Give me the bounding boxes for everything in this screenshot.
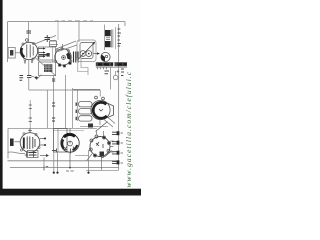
- output tube V4 envelope: [91, 100, 110, 119]
- tube V2 IF amp envelope: [55, 49, 71, 65]
- wire top drop to V1: [28, 22, 30, 42]
- V6 pin dark dots: [94, 137, 110, 157]
- gang output lead: [94, 53, 98, 55]
- vertical wire x77 to ladder: [76, 90, 78, 121]
- V6 bottom drop wire: [101, 158, 103, 171]
- transformer inner line: [57, 129, 59, 152]
- label c below: [44, 166, 48, 171]
- pilot lamp lead: [115, 71, 117, 75]
- tube V2 perimeter pin bumps: [55, 48, 72, 63]
- switch label marks: [29, 153, 37, 156]
- V7 left dark bar: [23, 138, 25, 149]
- V4 top pin circles: [95, 96, 98, 99]
- plus mark: [37, 57, 40, 60]
- detector tube V3 envelope: [101, 52, 110, 61]
- V3 dark half: [101, 55, 105, 62]
- output transformer winding 2: [105, 41, 111, 47]
- tube V1 bottom pin bars: [25, 60, 32, 64]
- bottom curved wire: [8, 152, 26, 154]
- vertical drops from V7: [54, 152, 58, 172]
- plus mark right: [117, 70, 120, 73]
- gang rotor A dot: [82, 53, 84, 55]
- V3 inner mark: [105, 55, 107, 57]
- diagonal wires to tuning cap: [56, 41, 77, 52]
- cap E2: [112, 142, 117, 144]
- tube V2 dark anode segments: [66, 52, 71, 60]
- capacitor C4 in series: [27, 76, 31, 78]
- oscillator coil box L1: [39, 47, 56, 60]
- rectifier filament tube V7 envelope: [20, 133, 40, 153]
- vertical wire x52.5: [52, 46, 54, 62]
- L1 terminal blob: [47, 53, 50, 57]
- vertical wire x110.5 below band: [110, 67, 112, 90]
- band lower rail: [96, 66, 127, 68]
- rectifier tube V5 envelope: [61, 134, 79, 152]
- vertical drop x44: [43, 158, 45, 168]
- V6 inner marks: [96, 142, 103, 148]
- band dark dashes: [98, 63, 127, 65]
- V7 right stub dots: [44, 138, 46, 140]
- antenna terminal box: [8, 48, 15, 59]
- V7 inner H bars: [27, 137, 35, 150]
- L1 winding dark bar: [39, 54, 48, 56]
- resistor R1 box: [50, 41, 57, 47]
- chassis dark band: [96, 62, 127, 66]
- wire V1 cathode drop: [28, 60, 30, 75]
- V7 bottom stubs: [25, 152, 36, 158]
- C4 diamond terminal: [34, 76, 38, 79]
- tuning gang box: [80, 43, 93, 59]
- cap E3: [112, 152, 117, 154]
- V6 lead wires: [97, 131, 114, 152]
- tube V6 envelope: [90, 137, 110, 157]
- wire from C4: [29, 77, 34, 90]
- V4 bottom diagonal leads: [104, 117, 115, 127]
- vertical wire x65: [65, 75, 67, 128]
- component at 100,153: [100, 152, 105, 157]
- junction marks on bus: [52, 149, 71, 154]
- svg-text:www.gacetilla.com/clefului.c: www.gacetilla.com/clefului.c: [124, 71, 133, 188]
- speaker lead line: [115, 27, 117, 49]
- bottom bus wire 1: [8, 160, 119, 162]
- wire top drop at x78: [78, 22, 80, 42]
- V4 inner marks: [99, 109, 103, 111]
- diagonal wire bottom-left of padder: [36, 75, 42, 81]
- cap E4: [112, 161, 117, 163]
- tube V1 left lead: [15, 52, 20, 54]
- pilot lamp: [113, 75, 118, 80]
- resistor R2 box: [79, 102, 93, 107]
- component marks on x53 wire: [52, 79, 55, 121]
- wire diagonal V1 to padder: [35, 58, 56, 77]
- cap C3 label left of frame: [20, 76, 24, 81]
- V7 perimeter pin bumps: [20, 133, 40, 151]
- tube V1 inner grid bars: [27, 45, 33, 58]
- label b2 marks right of band: [121, 69, 124, 76]
- vertical wire x53: [53, 75, 55, 128]
- gang arrow: [78, 43, 95, 60]
- vertical wire x72: [72, 88, 74, 128]
- wire y155 to x88: [75, 150, 89, 172]
- wire top drop x58: [57, 22, 59, 40]
- filter cap stack: cap E1: [112, 132, 117, 134]
- frame top border: [8, 21, 126, 23]
- capacitor C6 at V7 left: [15, 141, 21, 143]
- tube V1 cathode dark blob: [21, 48, 24, 57]
- marks on x30 wire: [29, 105, 32, 122]
- V5 top stub: [69, 129, 71, 135]
- antenna terminal mark: [10, 50, 13, 56]
- wires left of V2: [50, 41, 58, 45]
- tube V1 top pin circle: [26, 39, 29, 42]
- bottom-right horizontal wire: [86, 169, 119, 171]
- arrow at switch: [40, 155, 46, 157]
- V6 pin circles: [89, 135, 110, 158]
- V5 bottom right dark arc: [73, 145, 78, 150]
- capacitor C2: [45, 35, 51, 42]
- AVC bus wire horizontal: [29, 89, 100, 91]
- drop terminals dots: [53, 172, 55, 174]
- tube V2 top stub: [62, 44, 64, 49]
- V5 left dark arc: [62, 140, 64, 149]
- lower section frame left: [7, 128, 9, 158]
- tube V1 pin arrowheads: [43, 47, 46, 57]
- R2 left terminal tick: [75, 103, 77, 121]
- hatch white lines: [44, 64, 52, 72]
- frame left border: [7, 22, 9, 62]
- label 1n marks: [105, 71, 110, 74]
- nested wire L2 below gang: [81, 58, 88, 75]
- capacitor C1 on top drop: [26, 31, 31, 33]
- padder block box: [39, 62, 56, 76]
- junction dot on bus2: [69, 167, 71, 169]
- tube V1 converter envelope: [20, 42, 37, 59]
- tube V1 grid pin stubs right: [38, 49, 44, 57]
- gang arrow head: [92, 42, 95, 45]
- vertical wire x47: [46, 90, 48, 128]
- bottom black bar: [0, 189, 141, 196]
- tuning gang outer box: [77, 40, 96, 62]
- gang rotor circle B: [86, 51, 92, 57]
- speaker pin text marks: [118, 29, 121, 46]
- gang rotor B dot: [88, 53, 90, 55]
- V5 heavy top dark arc: [64, 134, 75, 137]
- V7 right stubs: [40, 139, 46, 146]
- nested wire L1 below gang: [78, 58, 88, 72]
- diagonal wire at 105-112: [105, 151, 113, 158]
- wire diagonal V1 to C2: [35, 36, 57, 45]
- transformer core lines: [112, 30, 113, 48]
- V4 heavy anode arc: [93, 102, 107, 118]
- frame right border: [118, 24, 120, 170]
- output transformer winding 1: [105, 30, 111, 36]
- heater wire pair: [53, 129, 84, 131]
- junction marks between windings: [106, 38, 110, 40]
- title text on top border: [55, 20, 93, 22]
- output transformer primary lead: [104, 25, 106, 51]
- scanner edge strip: [0, 0, 3, 190]
- V5 inner spokes: [65, 141, 76, 150]
- tick marks below band: [98, 67, 107, 69]
- resistor R4 box: [79, 116, 93, 121]
- V4 pentagon flare: [104, 102, 114, 120]
- IF transformer T1 primary bars: [74, 52, 79, 63]
- lower section frame top: [8, 127, 97, 129]
- tube V2 bottom dark pin blobs: [58, 62, 71, 68]
- switch diagonal: [96, 122, 108, 132]
- capacitor C5 hatched: [88, 124, 93, 128]
- gang lead arrowhead: [97, 52, 100, 54]
- vertical wire x30 lower: [29, 100, 31, 128]
- x88 terminal dot: [87, 172, 89, 174]
- cap labels right: [121, 133, 124, 163]
- tube V2 center dot: [63, 57, 65, 59]
- V5 inner circle: [68, 141, 73, 146]
- V4 bottom stub: [99, 120, 101, 125]
- gang rotor circle A: [80, 51, 86, 57]
- tube V2 inner electrode: [62, 56, 66, 60]
- tube V1 perimeter pin bumps: [22, 42, 35, 60]
- power transformer box: [54, 129, 68, 153]
- V7 top stub with bar: [28, 128, 32, 132]
- wire top of lower section with cap: [80, 125, 108, 127]
- V5 bottom stub: [69, 152, 71, 167]
- bottom bus wire 2: [10, 167, 119, 169]
- frame top-right corner stub: [124, 22, 126, 26]
- padder dark hatch block: [44, 64, 52, 72]
- label marks below bus2: [66, 170, 74, 172]
- resistor R3 box: [79, 109, 93, 114]
- V6 bottom-left wire: [87, 154, 93, 161]
- drop from bus to V4: [99, 90, 101, 97]
- switch label box: [28, 151, 39, 158]
- dark thick segment of bus: [72, 89, 100, 91]
